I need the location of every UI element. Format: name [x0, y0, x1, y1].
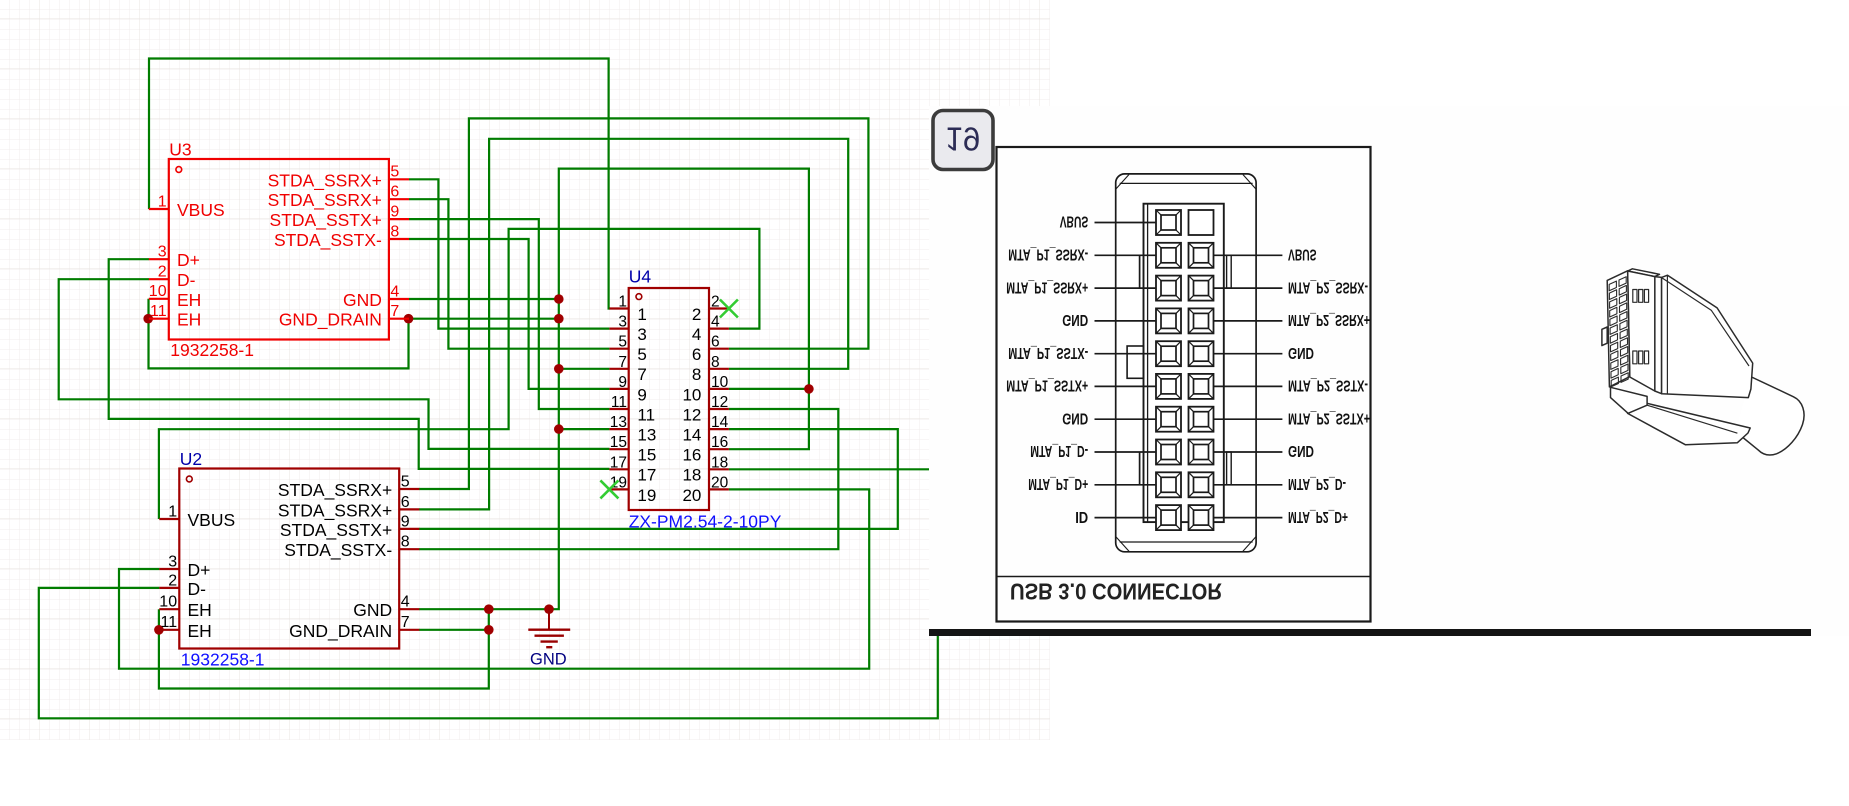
junction dot J1 at (148.2,318.7): [143, 314, 153, 324]
svg-text:EH: EH: [188, 600, 212, 620]
wire net SSTX1-: U3.8 to U4.9: [409, 239, 609, 389]
junction dot J11 at (158.9,629.8): [154, 625, 164, 635]
svg-text:MTA_P2_D-: MTA_P2_D-: [1288, 475, 1346, 492]
wire GND: U4.10 to trunk: [729, 388, 809, 390]
svg-text:4: 4: [692, 325, 701, 344]
svg-text:16: 16: [682, 446, 701, 465]
svg-text:13: 13: [610, 414, 627, 431]
svg-text:17: 17: [637, 466, 656, 485]
svg-text:STDA_SSTX-: STDA_SSTX-: [274, 230, 382, 251]
svg-text:3: 3: [158, 244, 167, 261]
svg-text:19: 19: [610, 474, 627, 491]
svg-text:7: 7: [390, 303, 399, 320]
svg-text:8: 8: [390, 223, 399, 240]
junction dot J4 at (558.8,318.7): [554, 314, 564, 324]
svg-text:D+: D+: [188, 560, 211, 580]
svg-text:MTA_P1_D+: MTA_P1_D+: [1028, 475, 1088, 492]
svg-text:MTA_P1_SSTX-: MTA_P1_SSTX-: [1008, 344, 1088, 361]
svg-text:U4: U4: [629, 267, 652, 287]
svg-text:D-: D-: [177, 270, 196, 290]
pasted datasheet image background: [929, 106, 1849, 636]
wire net VBUS2: U2.1 to U4.4: [159, 229, 760, 519]
svg-text:STDA_SSTX+: STDA_SSTX+: [280, 520, 392, 541]
svg-text:MTA_P1_SSRX+: MTA_P1_SSRX+: [1006, 278, 1088, 295]
svg-text:1: 1: [158, 193, 167, 210]
datasheet figure frame: [997, 147, 1371, 622]
svg-text:1: 1: [637, 305, 646, 324]
connector pads 2x10: [1156, 210, 1214, 530]
3D connector drawing: [1602, 269, 1804, 455]
svg-text:3: 3: [618, 314, 627, 331]
svg-text:8: 8: [711, 354, 720, 371]
svg-text:MTA_P1_D-: MTA_P1_D-: [1030, 442, 1088, 459]
junction dot J6 at (558.8,429.1): [554, 424, 564, 434]
svg-text:STDA_SSRX+: STDA_SSRX+: [268, 190, 382, 211]
svg-text:11: 11: [611, 394, 627, 411]
svg-text:VBUS: VBUS: [177, 200, 225, 220]
junction dot J7 at (808.9,388.9): [804, 384, 814, 394]
svg-text:GND_DRAIN: GND_DRAIN: [279, 310, 382, 331]
svg-text:13: 13: [637, 426, 656, 445]
svg-text:10: 10: [682, 385, 701, 404]
svg-text:1: 1: [618, 294, 627, 311]
wire net SSRX2-: U2.6 to U4.8: [419, 139, 848, 510]
svg-text:5: 5: [637, 345, 646, 364]
wire GND: U3.7 to GND trunk: [409, 318, 559, 320]
junction dot J8 at (549,609.2): [544, 604, 554, 614]
svg-text:MTA_P2_SSTX+: MTA_P2_SSTX+: [1288, 409, 1370, 426]
page number badge 19 (flipped): [933, 111, 993, 170]
svg-text:4: 4: [401, 594, 410, 611]
svg-text:5: 5: [390, 164, 399, 181]
svg-text:18: 18: [711, 454, 728, 471]
wire net SSRX1+: U3.5 to U4.3: [409, 179, 609, 328]
svg-text:2: 2: [692, 305, 701, 324]
svg-text:14: 14: [682, 426, 701, 445]
wire GND: U2.10/U2.11 loop: [159, 609, 489, 688]
svg-text:6: 6: [711, 334, 720, 351]
svg-text:STDA_SSRX+: STDA_SSRX+: [278, 500, 392, 521]
svg-text:U3: U3: [169, 140, 191, 160]
component U2 (1932258-1): [159, 449, 419, 670]
svg-text:7: 7: [401, 614, 410, 631]
svg-text:D+: D+: [177, 250, 200, 270]
svg-text:5: 5: [401, 473, 410, 490]
svg-text:9: 9: [618, 374, 627, 391]
svg-text:12: 12: [682, 405, 701, 424]
svg-text:1: 1: [168, 503, 177, 520]
connector pin-field frame: [1127, 204, 1224, 522]
svg-text:20: 20: [682, 486, 701, 505]
wire net SSTX2-: U2.8 to U4.12: [419, 409, 838, 549]
svg-text:GND: GND: [353, 600, 392, 620]
svg-text:MTA_P2_SSRX-: MTA_P2_SSRX-: [1288, 278, 1368, 295]
svg-text:11: 11: [150, 303, 167, 320]
wire net D2+: U2.3 to U4.20: [119, 489, 869, 668]
svg-text:VBUS: VBUS: [1288, 246, 1317, 263]
svg-text:GND: GND: [1062, 409, 1088, 426]
connector U4 (ZX-PM2.54-2-10PY): [609, 267, 781, 532]
USB3 connector body outline: [1116, 174, 1256, 552]
svg-text:STDA_SSTX+: STDA_SSTX+: [270, 210, 382, 231]
svg-text:GND: GND: [1062, 311, 1088, 328]
svg-text:VBUS: VBUS: [1060, 213, 1089, 230]
svg-text:5: 5: [618, 334, 627, 351]
svg-text:10: 10: [149, 283, 167, 300]
svg-text:MTA_P1_SSRX-: MTA_P1_SSRX-: [1008, 246, 1088, 263]
svg-text:VBUS: VBUS: [188, 510, 236, 530]
svg-text:GND_DRAIN: GND_DRAIN: [289, 621, 392, 642]
svg-text:2: 2: [158, 264, 167, 281]
wire net SSTX2+: U2.9 to U4.14: [419, 429, 898, 529]
svg-text:3: 3: [637, 325, 646, 344]
svg-text:MTA_P2_SSTX-: MTA_P2_SSTX-: [1288, 377, 1368, 394]
ground GND symbol: [528, 609, 570, 668]
svg-text:2: 2: [168, 572, 177, 589]
svg-text:STDA_SSRX+: STDA_SSRX+: [268, 170, 382, 191]
wire net D1-: U3.2 to U4.15: [59, 279, 610, 449]
wire GND: U4.13 to trunk: [559, 428, 610, 430]
junction dot J9 at (488.8,609.2): [484, 604, 494, 614]
svg-text:3: 3: [168, 553, 177, 570]
junction dot J2 at (408.5,318.7): [404, 314, 414, 324]
svg-text:18: 18: [682, 466, 701, 485]
wire net D2-: U2.2 toward U4.18 (passes under pasted image): [39, 588, 938, 718]
svg-text:GND: GND: [1288, 442, 1314, 459]
svg-text:9: 9: [637, 385, 646, 404]
svg-text:1932258-1: 1932258-1: [170, 340, 254, 360]
svg-text:MTA_P2_SSRX+: MTA_P2_SSRX+: [1288, 311, 1370, 328]
svg-text:USB 3.0 CONNECTOR: USB 3.0 CONNECTOR: [1010, 579, 1222, 605]
no-connect X on U4 pin 2: [720, 300, 738, 318]
pin leader lines and labels (flipped text): [1006, 213, 1370, 525]
junction dot J3 at (558.8,299.0): [554, 294, 564, 304]
svg-text:20: 20: [711, 474, 729, 491]
figure title USB 3.0 CONNECTOR (flipped): [1010, 579, 1222, 605]
svg-text:GND: GND: [343, 290, 382, 310]
junction dot J5 at (558.8,368.8): [554, 364, 564, 374]
svg-text:4: 4: [390, 283, 399, 300]
wire net SSTX1+: U3.9 to U4.11: [409, 219, 609, 409]
wire GND: U3.10/U3.11 loop to U3.7: [149, 299, 409, 369]
wire net VBUS1: U3.1 to U4.1: [149, 59, 610, 309]
svg-text:17: 17: [610, 454, 627, 471]
svg-text:11: 11: [160, 614, 177, 631]
svg-text:19: 19: [945, 121, 980, 158]
svg-text:EH: EH: [177, 290, 201, 310]
svg-text:GND: GND: [1288, 344, 1314, 361]
svg-text:6: 6: [401, 494, 410, 511]
wire GND trunk: U2.4 up to U4.16: [419, 169, 809, 610]
svg-text:19: 19: [637, 486, 656, 505]
svg-text:2: 2: [711, 294, 720, 311]
svg-text:9: 9: [401, 513, 410, 530]
wire net SSRX2+: U2.5 to U4.6: [419, 118, 868, 489]
svg-text:ID: ID: [1075, 508, 1088, 525]
svg-text:9: 9: [390, 204, 399, 221]
svg-text:1932258-1: 1932258-1: [181, 650, 265, 670]
wire GND: U3.4 to GND trunk: [409, 298, 559, 300]
junction dot J10 at (488.8,629.8): [484, 625, 494, 635]
svg-text:12: 12: [711, 394, 728, 411]
wire net D1+: U3.3 to U4.17: [109, 259, 610, 469]
pasted image bottom black bar: [929, 629, 1811, 636]
svg-text:7: 7: [637, 365, 646, 384]
wire net SSRX1-: U3.6 to U4.5: [409, 199, 609, 349]
svg-text:ZX-PM2.54-2-10PY: ZX-PM2.54-2-10PY: [629, 512, 782, 532]
svg-text:8: 8: [401, 534, 410, 551]
svg-text:GND: GND: [530, 650, 567, 668]
svg-text:U2: U2: [180, 449, 202, 469]
svg-text:EH: EH: [188, 621, 212, 641]
component U3 (1932258-1): [149, 140, 409, 361]
no-connect X on U4 pin 19: [600, 480, 618, 498]
svg-text:STDA_SSTX-: STDA_SSTX-: [284, 540, 392, 561]
svg-text:6: 6: [692, 345, 701, 364]
svg-text:6: 6: [390, 184, 399, 201]
svg-text:10: 10: [711, 374, 729, 391]
svg-text:STDA_SSRX+: STDA_SSRX+: [278, 480, 392, 501]
svg-text:10: 10: [159, 594, 177, 611]
wire net D2-: U4.18 stub run to image edge: [729, 468, 929, 470]
svg-text:16: 16: [711, 434, 728, 451]
svg-text:14: 14: [711, 414, 729, 431]
svg-text:15: 15: [637, 446, 656, 465]
svg-text:4: 4: [711, 314, 720, 331]
svg-text:MTA_P1_SSTX+: MTA_P1_SSTX+: [1006, 377, 1088, 394]
svg-text:8: 8: [692, 365, 701, 384]
svg-text:EH: EH: [177, 310, 201, 330]
wire GND: U2.7 to riser: [419, 629, 489, 631]
svg-text:7: 7: [618, 354, 627, 371]
wire GND: U4.7 to trunk: [559, 368, 610, 370]
svg-text:15: 15: [610, 434, 627, 451]
svg-text:11: 11: [637, 405, 655, 424]
svg-text:D-: D-: [188, 579, 207, 599]
svg-text:MTA_P2_D+: MTA_P2_D+: [1288, 508, 1348, 525]
